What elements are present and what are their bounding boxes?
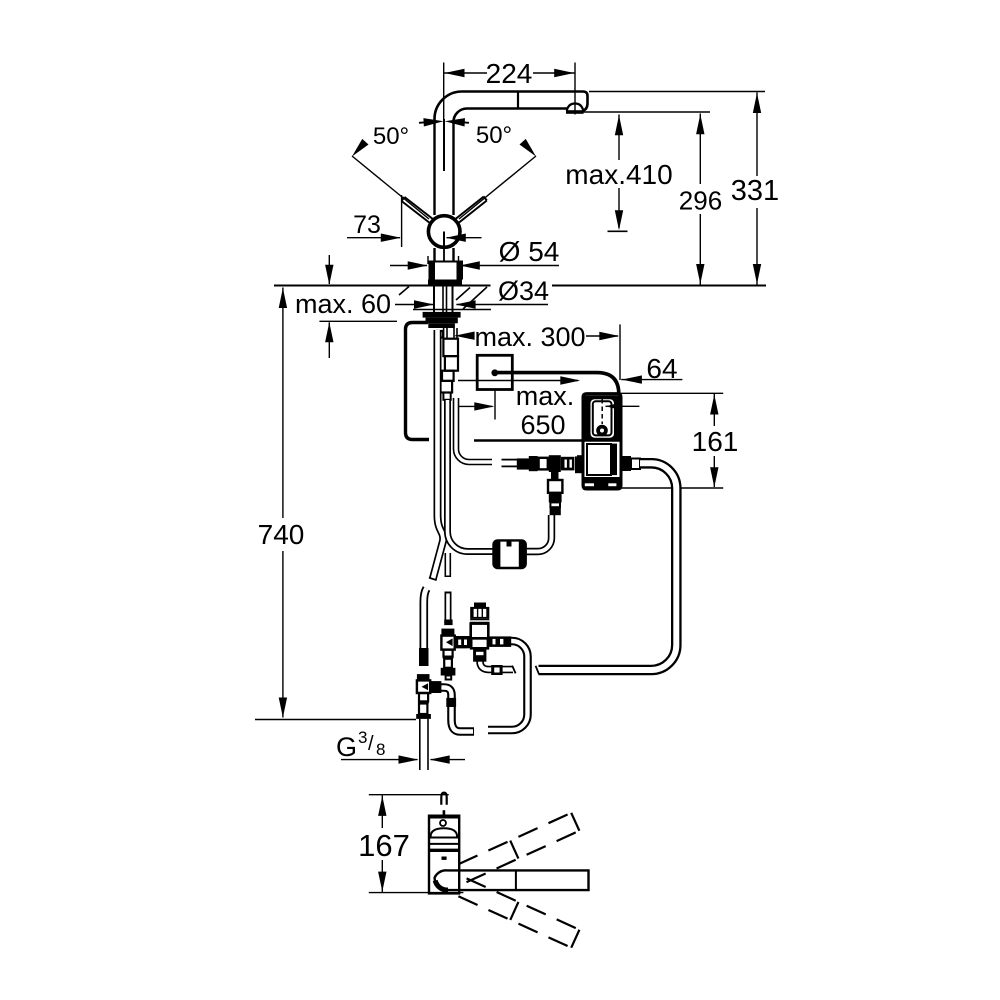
aerator dome — [567, 104, 583, 111]
max. 650 — [458, 380, 578, 382]
mounting hardware under counter — [423, 312, 461, 318]
svg-text:650: 650 — [520, 410, 565, 440]
svg-text:Ø34: Ø34 — [498, 276, 549, 306]
svg-text:161: 161 — [692, 426, 739, 457]
hose B to filter loop — [447, 400, 494, 552]
T branch down — [551, 472, 559, 480]
svg-text:/: / — [368, 733, 374, 755]
svg-text:G: G — [336, 732, 357, 762]
hose E to middle valve — [445, 592, 452, 623]
svg-text:167: 167 — [358, 828, 410, 863]
fitting on outlet hose — [491, 665, 502, 675]
hose C to check valve row — [456, 398, 492, 462]
base unit — [429, 816, 459, 894]
svg-text:max. 60: max. 60 — [295, 289, 391, 319]
lever arm right — [455, 197, 487, 224]
svg-text:224: 224 — [486, 58, 533, 89]
hose A: pullout hose descending with S-curve diagonal — [433, 330, 443, 579]
hose A continuation to left valve — [424, 589, 427, 651]
224 dimension — [443, 63, 445, 123]
control box housing — [583, 394, 621, 489]
big valve right hose down-left loop — [488, 641, 528, 730]
svg-text:3: 3 — [358, 728, 367, 747]
plug square with dot and cable — [477, 355, 512, 389]
pipe body walls — [433, 124, 435, 215]
max. 300 — [456, 335, 475, 337]
73 dimension — [401, 195, 403, 247]
64 — [621, 379, 682, 381]
svg-text:50°: 50° — [373, 123, 409, 150]
svg-text:8: 8 — [376, 740, 385, 759]
dark cap lower-left — [435, 881, 448, 891]
svg-text:50°: 50° — [476, 122, 512, 149]
arrowheads at ray ends (tangent oriented) — [349, 139, 369, 159]
counter underside line — [413, 309, 491, 311]
dashed spout down — [458, 878, 579, 947]
dia 34 dimension — [395, 304, 433, 306]
167 dimension — [369, 794, 449, 796]
svg-text:Ø 54: Ø 54 — [499, 236, 560, 267]
max. 60 — [328, 255, 330, 284]
svg-text:331: 331 — [731, 175, 779, 207]
dashed spout up — [458, 813, 579, 882]
161 — [620, 392, 723, 394]
svg-text:740: 740 — [258, 519, 305, 550]
dia 54 dimension — [427, 256, 429, 264]
big loop hose from box right port — [539, 463, 677, 670]
cabinet outline — [406, 323, 430, 440]
counter hatching — [399, 287, 409, 296]
bottom port — [473, 648, 486, 661]
escutcheon — [428, 261, 463, 263]
box left port — [575, 456, 583, 473]
valve outlet small hose — [480, 658, 513, 670]
svg-text:max. 300: max. 300 — [474, 322, 585, 352]
max.410 dimension — [618, 115, 620, 161]
svg-text:max.: max. — [516, 381, 575, 411]
50 degree rays — [352, 156, 429, 219]
right port — [488, 636, 511, 647]
296 dimension — [583, 111, 710, 113]
hose piece before fitting row — [502, 459, 518, 468]
centerline — [443, 119, 445, 171]
svg-text:296: 296 — [679, 186, 722, 216]
T-branch down from fitting row to filter loop — [526, 515, 552, 552]
arc arrowheads at top with tails — [419, 121, 427, 124]
lever arm left — [402, 197, 434, 224]
331 dimension — [589, 91, 765, 93]
shank fitting stack — [443, 328, 445, 339]
left valve branch hose — [440, 688, 474, 732]
counter top line — [274, 285, 491, 287]
spout divider — [517, 92, 519, 109]
svg-text:73: 73 — [353, 211, 381, 239]
left port — [455, 636, 471, 648]
spout outline — [435, 92, 588, 125]
svg-text:max.410: max.410 — [565, 159, 672, 190]
spout bar solid — [435, 870, 589, 890]
lever ball — [428, 216, 460, 248]
740 — [282, 288, 284, 519]
fitting on branch hose — [446, 698, 456, 707]
supply pipe below — [419, 719, 421, 770]
svg-text:64: 64 — [646, 353, 677, 384]
hose F stub below bend — [444, 553, 451, 577]
box right port — [621, 456, 631, 471]
hose cut marks — [536, 666, 539, 674]
